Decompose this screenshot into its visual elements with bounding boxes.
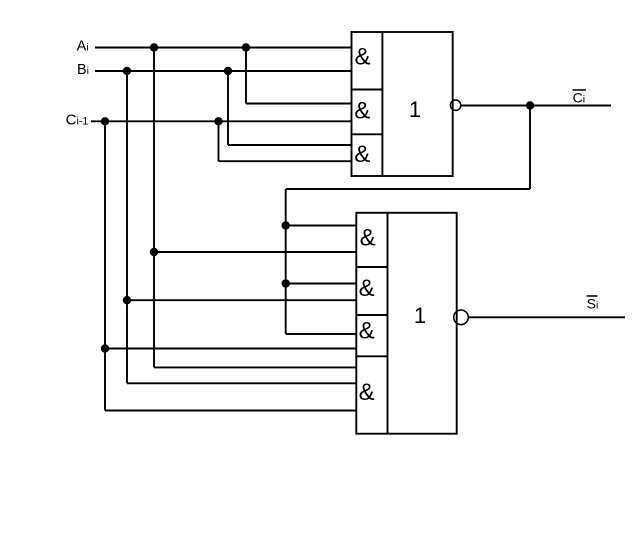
svg-text:&: & [359, 275, 375, 302]
svg-text:Bi: Bi [77, 62, 89, 78]
svg-text:&: & [354, 141, 370, 168]
svg-text:1: 1 [414, 303, 426, 328]
svg-text:&: & [360, 224, 376, 251]
svg-text:Ai: Ai [77, 39, 89, 55]
svg-text:1: 1 [409, 97, 421, 122]
svg-text:&: & [354, 98, 370, 125]
svg-text:&: & [359, 379, 375, 406]
svg-text:&: & [359, 317, 375, 344]
svg-text:&: & [354, 44, 370, 71]
